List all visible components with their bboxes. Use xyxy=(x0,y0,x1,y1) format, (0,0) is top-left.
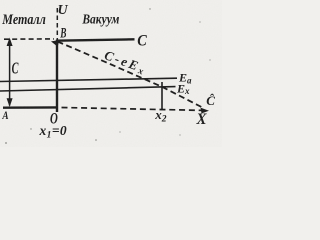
scan speckles xyxy=(149,8,150,9)
line BC (vacuum level top) xyxy=(56,39,135,40)
dashed diagonal C-eEx xyxy=(58,42,203,108)
double arrow C upper head xyxy=(7,38,13,47)
paper grain overlay xyxy=(0,0,222,147)
vertical line at x2 xyxy=(161,82,163,110)
bottom line A (metal bottom) xyxy=(3,106,58,109)
dashed level line inside metal xyxy=(4,38,54,40)
paper background xyxy=(0,0,222,147)
level line Ea xyxy=(0,78,177,81)
double arrow C lower head xyxy=(7,98,13,107)
X axis arrowhead xyxy=(201,108,210,114)
arrowhead at B junction of diagonal xyxy=(51,40,59,47)
U axis dashed upper part xyxy=(56,8,58,41)
X axis dashed xyxy=(62,108,204,111)
level line Ex xyxy=(0,87,176,91)
U axis solid vertical (metal boundary) xyxy=(56,40,58,112)
double arrow C (work in metal) shaft xyxy=(9,40,11,106)
